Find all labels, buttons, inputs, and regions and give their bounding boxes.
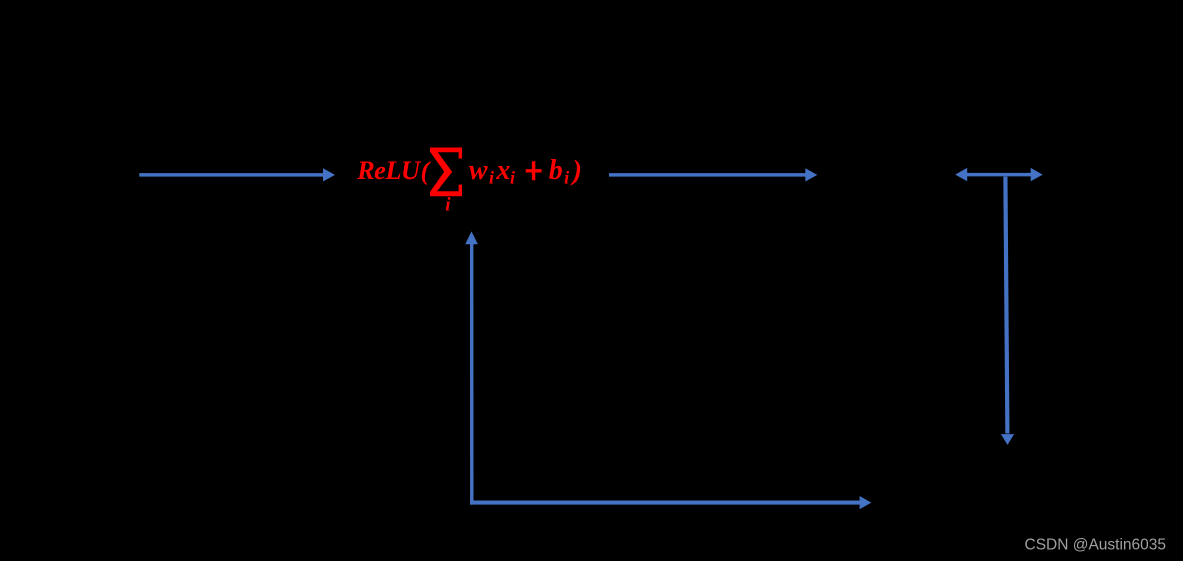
wire: input arrow (left horizontal) xyxy=(139,168,335,181)
svg-text:w: w xyxy=(469,155,488,186)
wire: output arrow (middle horizontal) xyxy=(609,168,817,181)
svg-text:i: i xyxy=(564,167,569,187)
wire: double-headed arrow (top right) xyxy=(955,168,1042,181)
sigma operator xyxy=(430,148,462,197)
svg-text:CSDN @Austin6035: CSDN @Austin6035 xyxy=(1025,537,1167,554)
svg-text:i: i xyxy=(445,195,451,216)
wire: long vertical down arrow (right) xyxy=(1001,177,1014,445)
svg-text:i: i xyxy=(489,167,494,187)
wire: feedback elbow (up arrow + bottom right arrow) xyxy=(465,231,871,509)
plus sign xyxy=(526,161,542,180)
svg-text:b: b xyxy=(549,155,563,186)
svg-text:x: x xyxy=(495,155,510,186)
node: formula ReLU(sum wi xi + bi) xyxy=(356,148,582,216)
svg-text:i: i xyxy=(510,167,515,187)
svg-text:ReLU: ReLU xyxy=(356,155,422,185)
